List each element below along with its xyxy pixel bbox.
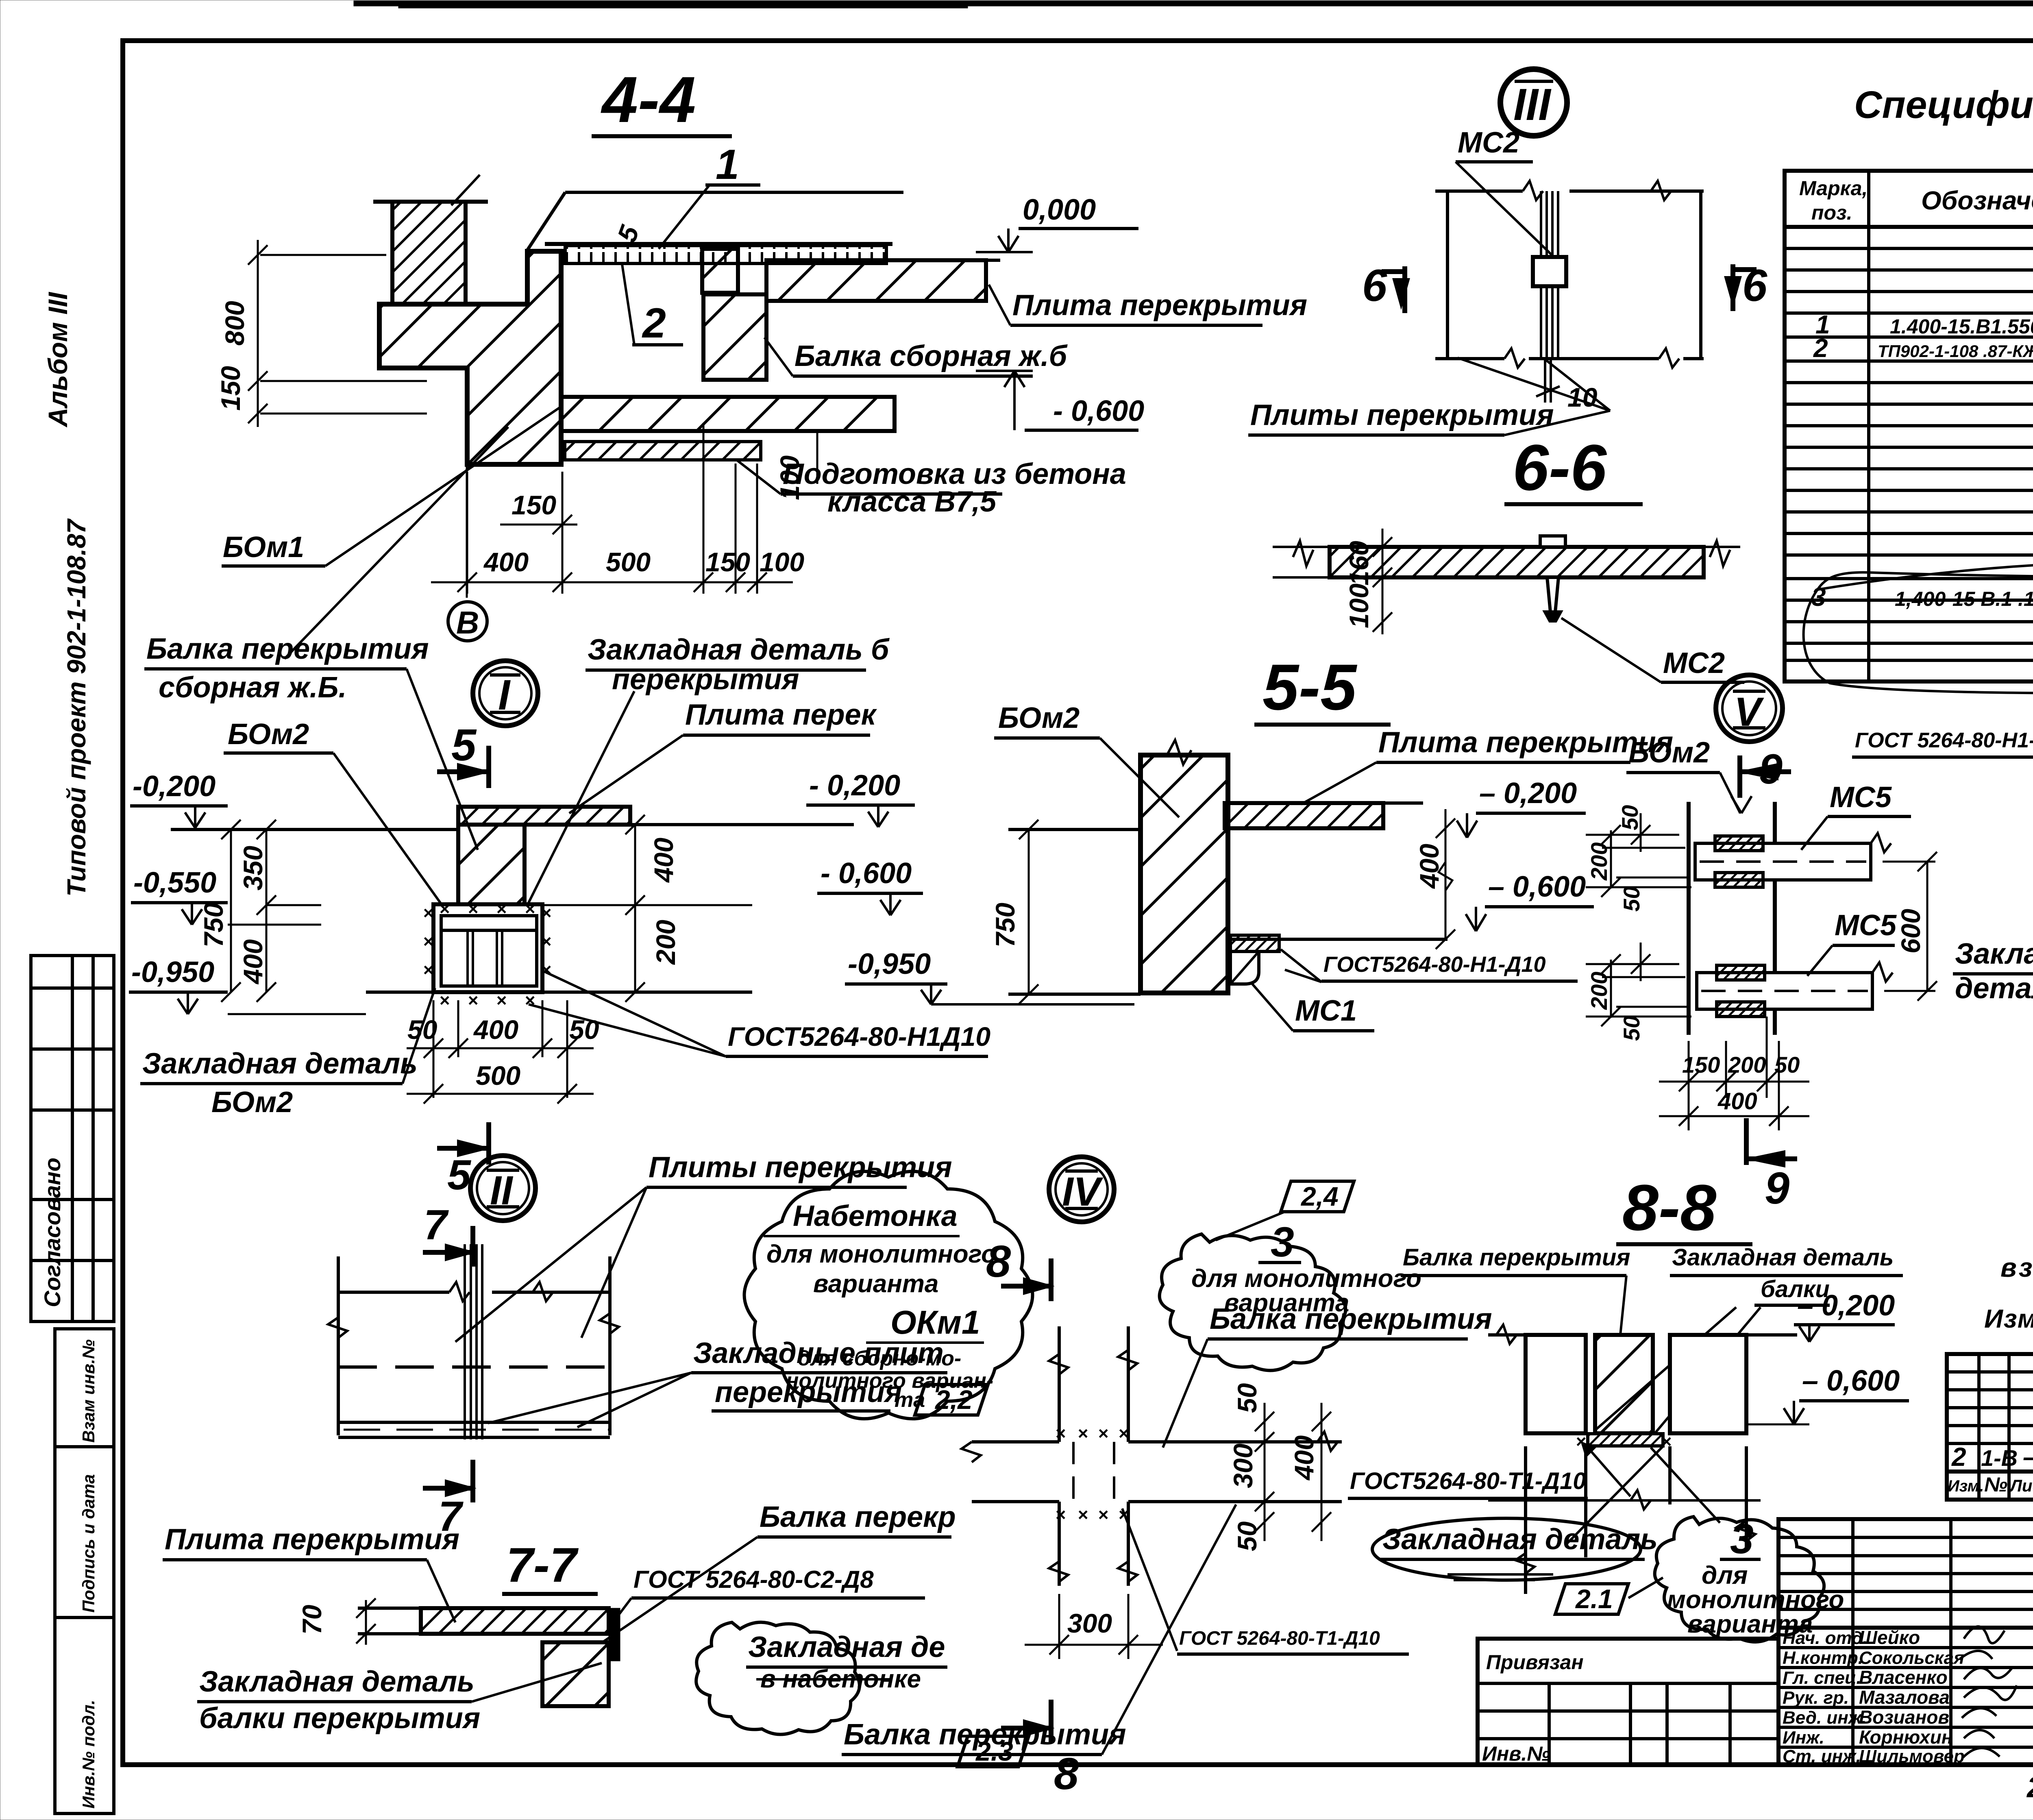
svg-text:50: 50 [407,1014,438,1045]
svg-text:Вед. инж.: Вед. инж. [1783,1708,1867,1728]
top lines left/right [1488,1333,1526,1337]
svg-text:×: × [496,899,507,919]
svg-text:- 0,200: - 0,200 [809,769,900,802]
section mark 7 top [423,1202,473,1267]
svg-text:50: 50 [1619,1016,1644,1041]
svg-text:Возианов: Возианов [1859,1707,1949,1728]
IV plan: column verticals [1049,1326,1137,1586]
svg-text:200: 200 [1586,843,1612,881]
svg-text:6: 6 [1362,261,1387,311]
svg-text:×: × [439,899,450,919]
I detail: ref lines [171,825,854,992]
svg-text:×: × [541,960,551,980]
svg-text:6: 6 [1742,261,1767,311]
svg-text:300: 300 [1228,1443,1258,1488]
svg-text:2: 2 [642,300,666,347]
I detail: box with channels [433,904,542,992]
bundle tail below [1544,359,1546,403]
svg-text:Мазалова: Мазалова [1859,1687,1950,1708]
cloud 3 для монолитного варианта [1160,1234,1346,1370]
svg-text:22365-01 17: 22365-01 17 [2026,1771,2033,1804]
svg-text:ГОСТ5264-80-Н1-Д10: ГОСТ5264-80-Н1-Д10 [1323,952,1546,977]
svg-text:9: 9 [1765,1163,1789,1213]
vertical plate at right end [609,1608,620,1661]
svg-text:сборная ж.Б.: сборная ж.Б. [159,671,347,704]
svg-text:БОм2: БОм2 [998,702,1080,734]
svg-text:монолитного: монолитного [1667,1586,1844,1614]
svg-text:БОм2: БОм2 [211,1086,293,1119]
cloud Закладная деталь в набетонке (right of 7-7) [696,1622,860,1735]
svg-text:1.400-15.В1.550-07: 1.400-15.В1.550-07 [1890,315,2033,338]
svg-text:×: × [468,899,478,919]
svg-text:400: 400 [1717,1088,1757,1115]
svg-text:8: 8 [1054,1749,1079,1799]
svg-text:350: 350 [238,846,268,890]
beam block Балка сборная [703,294,766,380]
svg-text:×: × [1098,1505,1108,1525]
svg-text:50: 50 [1232,1521,1262,1551]
flag 2.1 [1555,1584,1628,1614]
svg-text:ГОСТ 5264-80-С2-Д8: ГОСТ 5264-80-С2-Д8 [633,1566,874,1593]
svg-text:2.1: 2.1 [1575,1584,1613,1614]
svg-text:Изм.: Изм. [1948,1477,1984,1495]
svg-text:200: 200 [1586,972,1612,1010]
svg-text:Шейко: Шейко [1859,1627,1920,1648]
circle V [1716,675,1783,742]
section mark 5 top [437,720,489,788]
svg-text:для сборно-мо-: для сборно-мо- [798,1347,961,1370]
left dim chains [221,820,321,1002]
svg-text:50: 50 [1619,886,1644,912]
plan: top line [338,1256,610,1435]
svg-text:×: × [468,991,478,1010]
welded box on bundle [1533,257,1566,286]
svg-text:- 0,600: - 0,600 [1053,395,1144,427]
wall hatched [1141,755,1228,993]
bottom dim chain 400/500/150/100 [431,423,793,594]
svg-text:Закладная деталь: Закладная деталь [1672,1244,1894,1271]
spec table grid [1785,171,2033,681]
svg-text:9: 9 [1759,746,1783,793]
svg-text:балки перекрытия: балки перекрытия [199,1702,480,1735]
svg-text:3: 3 [1730,1515,1754,1563]
svg-text:0,000: 0,000 [1023,194,1096,226]
svg-text:Подпись и дата: Подпись и дата [79,1474,98,1613]
svg-text:ГОСТ 5264-80-Н1-Д10: ГОСТ 5264-80-Н1-Д10 [1855,729,2033,752]
svg-text:150: 150 [512,490,556,520]
svg-text:400: 400 [238,939,268,985]
svg-text:Альбом III: Альбом III [43,292,73,428]
leader down to В circle [466,464,468,598]
x marks at welds [1055,1424,1129,1525]
plan: top rail [1435,181,1704,359]
svg-text:×: × [525,991,535,1010]
svg-text:- 0,600: - 0,600 [821,857,912,890]
scan artifact: dark strip along top edge [354,1,2033,6]
svg-text:Закладная де: Закладная де [748,1631,945,1663]
dim 100/160 rotated [1373,529,1392,634]
svg-text:Закладная деталь: Закладная деталь [199,1665,475,1698]
I detail: slab band [458,807,630,825]
svg-text:III: III [1513,80,1552,130]
ref line left of wall [1008,828,1141,831]
svg-text:Плита перекрытия: Плита перекрытия [165,1523,459,1556]
circle II [470,1156,535,1221]
svg-text:та: та [895,1388,925,1412]
svg-text:×: × [1077,1424,1088,1443]
svg-text:для: для [1702,1561,1748,1589]
svg-text:Инв.№: Инв.№ [1482,1742,1550,1765]
svg-text:Плита перекрытия: Плита перекрытия [1012,289,1307,322]
svg-text:ГОСТ5264-80-Н1Д10: ГОСТ5264-80-Н1Д10 [728,1021,990,1052]
svg-text:×: × [525,899,535,919]
anchor МС2 in strip [1540,536,1565,621]
svg-text:2,4: 2,4 [1300,1181,1339,1211]
I detail: column [458,825,525,906]
svg-text:МС1: МС1 [1295,995,1357,1027]
staff signatures squiggles [1960,1626,2017,1757]
svg-text:800: 800 [220,301,250,346]
right slab (hatched) [766,260,986,301]
dashed mid line [338,1365,610,1369]
svg-text:Закладные: Закладные [1955,938,2033,970]
svg-text:Ст. инж.: Ст. инж. [1783,1746,1861,1766]
svg-text:варианта: варианта [813,1270,938,1298]
flag 2,4 [1281,1181,1354,1212]
svg-text:5-5: 5-5 [1262,651,1357,723]
svg-text:160: 160 [1344,541,1374,586]
dim 600 right [1883,852,1937,1001]
svg-text:варианта: варианта [1687,1610,1813,1638]
svg-text:750: 750 [198,903,229,947]
svg-text:×: × [1098,1424,1108,1443]
big hand-drawn loop around rows 3..end [1804,573,2033,693]
bottom dim 300 [1025,1594,1163,1659]
svg-text:8: 8 [986,1237,1011,1287]
svg-text:Корнюхин: Корнюхин [1859,1726,1953,1748]
svg-text:Обозначение: Обозначение [1921,186,2033,215]
top slab formwork comb band [545,244,892,263]
svg-text:ГОСТ5264-80-Т1-Д10: ГОСТ5264-80-Т1-Д10 [1350,1468,1586,1494]
svg-text:-0,950: -0,950 [848,948,931,980]
left dim chain 800/150 [248,240,427,427]
svg-text:Балка перекрытия: Балка перекрытия [1403,1244,1630,1271]
6-6 bottom strip [1330,547,1704,577]
svg-text:Инв.№ подл.: Инв.№ подл. [79,1700,98,1809]
dims right of IV [1255,1403,1331,1541]
svg-text:2: 2 [1813,333,1828,363]
svg-text:-0,550: -0,550 [133,866,216,899]
svg-text:×: × [496,991,507,1010]
svg-text:МС2: МС2 [1458,126,1519,159]
svg-text:нолитного вариан-: нолитного вариан- [786,1369,993,1393]
svg-text:×: × [423,960,433,980]
svg-text:×: × [439,991,450,1010]
svg-text:8-8: 8-8 [1622,1171,1716,1244]
top bar [1695,833,1891,887]
bottom line from corbel to right [1228,938,1447,941]
svg-text:-0,950: -0,950 [131,956,214,988]
svg-text:МС5: МС5 [1830,781,1892,814]
left rotated dims 200/50 pairs [1586,813,1691,1026]
long diagonal from pier to БОм1 area [285,427,508,659]
wall verticals below [1488,1446,1761,1594]
svg-text:– 0,200: – 0,200 [1797,1289,1895,1322]
svg-text:750: 750 [990,903,1020,947]
circle IV [1049,1157,1114,1222]
corbel МС1 [1230,935,1279,984]
pier (sparse hatch polygon) [379,251,561,464]
svg-text:– 0,200: – 0,200 [1479,777,1577,810]
svg-text:100: 100 [760,547,804,577]
svg-text:Гл. спец.: Гл. спец. [1783,1668,1861,1688]
svg-text:класса В7,5: класса В7,5 [827,485,997,518]
section mark 5 bottom [437,1122,489,1199]
slab band [421,1608,609,1634]
svg-text:50: 50 [1617,805,1643,830]
svg-text:1,400-15 В.1 .170: 1,400-15 В.1 .170 [1895,588,2033,610]
svg-text:Плита перек: Плита перек [685,699,877,731]
svg-text:МС5: МС5 [1835,909,1897,942]
svg-text:МС2: МС2 [1663,647,1725,679]
svg-text:150: 150 [215,366,246,411]
svg-text:-0,200: -0,200 [133,770,215,803]
svg-text:Н.контр.: Н.контр. [1783,1648,1863,1668]
svg-text:Балка перекр: Балка перекр [760,1501,956,1533]
slab band [1225,803,1383,828]
bottom dims 150/200/50 and 400 [1659,1017,1809,1130]
vertical bundle [1541,191,1558,358]
leaders from plate to clouds [1567,1446,1663,1543]
svg-text:Согласовано: Согласовано [39,1158,65,1307]
svg-text:4-4: 4-4 [601,63,696,136]
svg-text:взамен листа 4: взамен листа 4 [2000,1252,2033,1282]
section mark 9 top [1740,746,1791,798]
svg-text:6-6: 6-6 [1513,431,1607,504]
svg-text:Закладная деталь б: Закладная деталь б [588,634,890,666]
svg-text:Власенко: Власенко [1859,1667,1948,1688]
circle I [473,661,538,726]
svg-text:5: 5 [447,1152,472,1199]
svg-text:×: × [1055,1424,1066,1443]
svg-text:Сокольская: Сокольская [1859,1648,1964,1668]
svg-text:перекрытия: перекрытия [612,663,799,696]
svg-text:3: 3 [1271,1219,1294,1266]
svg-text:70: 70 [297,1604,327,1635]
svg-text:×: × [1055,1505,1066,1525]
x marks around box [423,899,551,1010]
svg-text:50: 50 [1774,1052,1800,1078]
svg-text:2.3: 2.3 [975,1736,1013,1766]
svg-text:Плиты перекрытия: Плиты перекрытия [649,1151,952,1184]
svg-text:7-7: 7-7 [506,1538,579,1592]
svg-text:×: × [423,932,433,951]
bottom rail [1435,348,1704,368]
svg-text:1: 1 [716,141,739,188]
svg-text:400: 400 [473,1014,518,1045]
Привязан table [1478,1639,1778,1765]
подготовка thin band [565,442,761,460]
axonometric top line [565,191,903,194]
flag 2.3 [958,1736,1029,1767]
svg-text:Типовой проект 902-1-108.87: Типовой проект 902-1-108.87 [62,518,91,897]
cloud Набетонка [744,1171,1033,1419]
left margin: bottom stamp boxes [55,1329,114,1813]
section mark 8 bottom [1001,1700,1079,1799]
dim 400 [1436,809,1455,949]
svg-text:Балка перекрытия: Балка перекрытия [146,633,429,665]
circle B [448,602,487,641]
svg-text:Лист: Лист [2009,1476,2033,1495]
svg-text:детали БОм2: детали БОм2 [1955,972,2033,1005]
svg-text:поз.: поз. [1811,201,1852,224]
svg-text:400: 400 [483,547,529,577]
monolithic slab band below beam [561,397,895,431]
section mark 9 bottom [1746,1118,1797,1213]
svg-text:400: 400 [1414,844,1444,889]
svg-text:600: 600 [1896,909,1926,954]
svg-text:Рук. гр.: Рук. гр. [1783,1688,1849,1708]
svg-text:200: 200 [1728,1052,1766,1078]
svg-text:БОм2: БОм2 [228,718,309,751]
svg-text:×: × [423,903,433,923]
svg-text:500: 500 [606,547,651,577]
svg-text:150: 150 [705,547,750,577]
svg-text:150: 150 [1682,1052,1720,1078]
svg-text:400: 400 [649,838,679,883]
bottom dims of I [407,1000,594,1104]
left margin: Согласовано box [31,956,114,1321]
svg-text:×: × [1077,1505,1088,1525]
svg-text:В: В [456,605,479,640]
svg-text:×: × [1118,1424,1129,1443]
svg-text:7: 7 [424,1202,449,1249]
svg-text:50: 50 [1232,1383,1262,1413]
svg-text:ОКм1: ОКм1 [890,1304,980,1341]
bottom bar [1697,962,1893,1017]
svg-text:Балка сборная ж.б: Балка сборная ж.б [794,340,1068,372]
svg-text:300: 300 [1067,1608,1112,1638]
svg-text:Взам инв.№: Взам инв.№ [79,1339,98,1443]
svg-text:×: × [541,932,551,951]
svg-text:–: – [2023,1442,2033,1472]
svg-text:200: 200 [651,920,681,965]
central vertical band [465,1244,482,1439]
break marks on verticals [328,1317,347,1338]
6 section marks [1362,261,1407,313]
cloud 3 для монолитного варианта (right) [1655,1517,1824,1642]
svg-text:Шильмовер: Шильмовер [1859,1746,1965,1766]
bottom slab band [338,1422,610,1437]
svg-text:2: 2 [1951,1442,1966,1472]
svg-text:5: 5 [451,720,477,770]
svg-text:500: 500 [476,1060,520,1091]
svg-text:ТП902-1-108 .87-КЖ1НЩ2: ТП902-1-108 .87-КЖ1НЩ2 [1878,342,2033,361]
svg-text:для монолитного: для монолитного [766,1240,997,1268]
svg-text:1-В: 1-В [1981,1445,2018,1471]
wall verticals [1689,802,1775,1035]
svg-text:Набетонка: Набетонка [793,1200,958,1232]
dim 750 left [1019,820,1038,1004]
svg-text:400: 400 [1289,1435,1319,1481]
svg-text:ГОСТ 5264-80-Т1-Д10: ГОСТ 5264-80-Т1-Д10 [1179,1628,1380,1649]
wall above pier (dense hatch) [392,202,466,304]
svg-text:Спецификация канала КЛ1,: Спецификация канала КЛ1, [1854,83,2033,126]
bottom plate [1588,1434,1663,1446]
wall top cap line [373,200,488,204]
flag 2,2 [915,1385,988,1415]
svg-text:– 0,600: – 0,600 [1802,1365,1900,1397]
svg-text:– 0,600: – 0,600 [1488,871,1586,903]
svg-text:Балка перекрытия: Балка перекрытия [1210,1303,1492,1335]
svg-text:Марка,: Марка, [1799,177,1868,200]
dim 70 [356,1598,376,1645]
beam upper block (hatched) [702,249,738,293]
svg-text:Закладная деталь: Закладная деталь [1382,1523,1658,1556]
svg-text:БОм2: БОм2 [1628,736,1710,769]
svg-text:Изм внес зав. гр СпС: Изм внес зав. гр СпС [1984,1304,2033,1333]
svg-text:Инж.: Инж. [1783,1728,1824,1748]
svg-text:№: № [1984,1473,2007,1496]
svg-text:Плиты перекрытия: Плиты перекрытия [1250,399,1554,431]
svg-text:для монолитного: для монолитного [1191,1265,1421,1293]
section mark 7 bottom [423,1460,473,1540]
svg-text:Закладная деталь: Закладная деталь [142,1047,418,1080]
section mark 8 top [986,1237,1051,1301]
circle III [1500,69,1567,136]
walls and beam [1526,1335,1746,1433]
staff grid left part [1778,1519,2033,1765]
beam hatched below [542,1642,609,1706]
svg-text:БОм1: БОм1 [223,531,304,564]
IV beams [962,1432,1342,1502]
svg-text:100: 100 [1344,583,1374,628]
svg-text:Привязан: Привязан [1486,1651,1584,1674]
